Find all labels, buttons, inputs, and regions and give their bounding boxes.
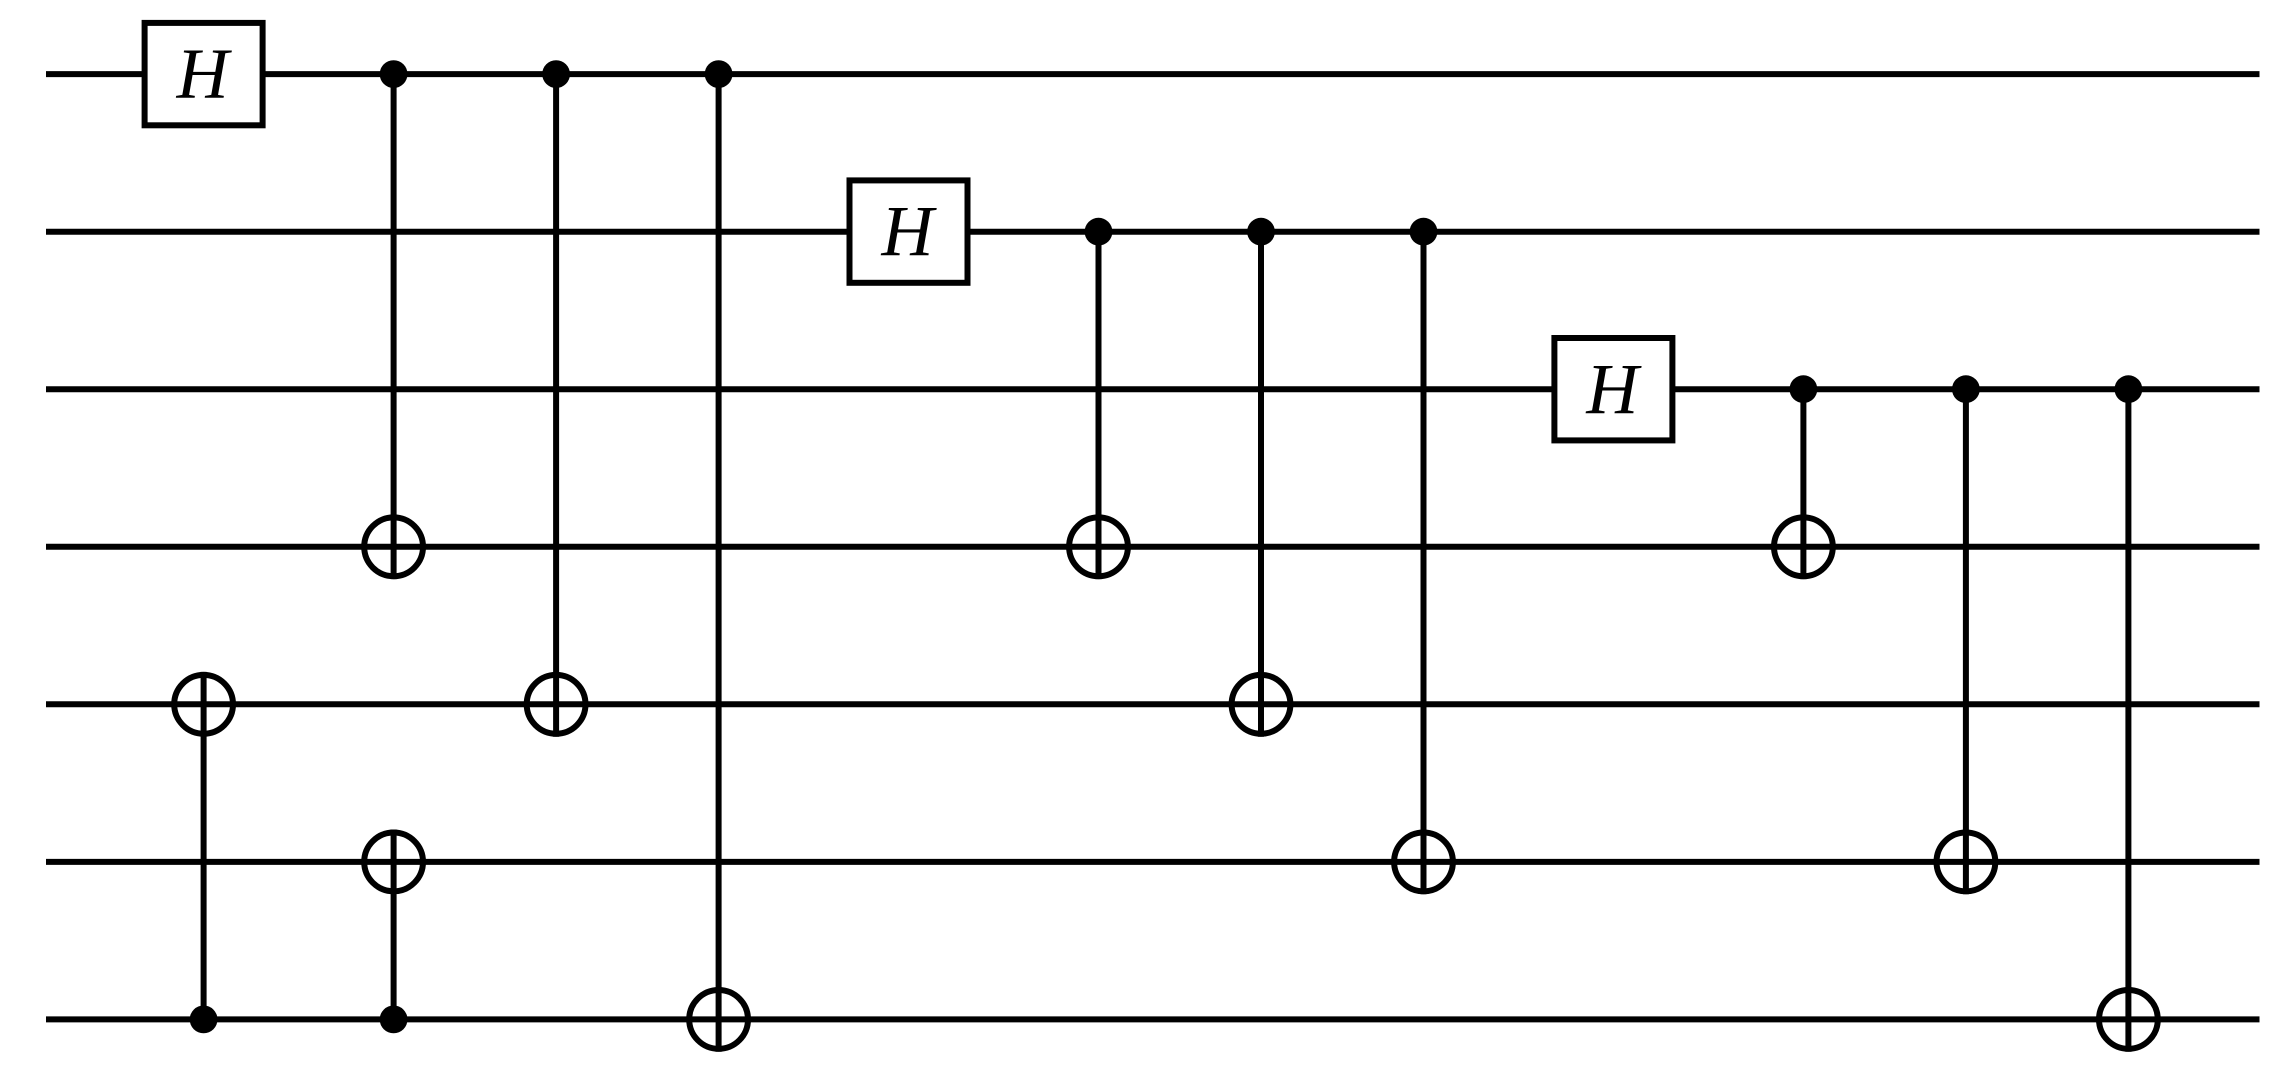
wire q6 xyxy=(46,1016,2260,1022)
CNOT q2-q5 col11 vertical wire xyxy=(1963,389,1969,894)
CNOT q2-q6 col12 target XOR xyxy=(2099,990,2158,1049)
svg-text:H: H xyxy=(881,191,938,271)
CNOT q2-q3 col10 target XOR xyxy=(1774,517,1833,576)
svg-text:H: H xyxy=(176,34,233,114)
wire q0 xyxy=(46,71,2260,77)
CNOT q2-q5 col11 control dot xyxy=(1952,375,1980,403)
CNOT q1-q3 col6 target XOR xyxy=(1069,517,1128,576)
CNOT q6-q5 col2 vertical wire xyxy=(391,830,397,1020)
wire q1 xyxy=(46,229,2260,235)
CNOT q0-q3 col2 control dot xyxy=(380,60,408,88)
Hadamard gate H3 box on q2 xyxy=(1554,338,1672,440)
CNOT q0-q3 col2 target XOR xyxy=(364,517,423,576)
svg-text:H: H xyxy=(1585,349,1642,429)
CNOT q2-q5 col11 target XOR xyxy=(1937,833,1996,892)
CNOT q0-q4 col3 vertical wire xyxy=(553,74,559,737)
CNOT q6-q4 col1 control dot xyxy=(190,1006,218,1034)
CNOT q6-q5 col2 target XOR xyxy=(364,833,423,892)
CNOT q1-q4 col7 control dot xyxy=(1247,218,1275,246)
CNOT q1-q4 col7 target XOR xyxy=(1232,675,1291,734)
Hadamard gate H2 box on q1 xyxy=(850,180,968,282)
CNOT q1-q3 col6 vertical wire xyxy=(1096,232,1102,579)
CNOT q0-q6 col4 target XOR xyxy=(689,990,748,1049)
CNOT q1-q5 col8 target XOR xyxy=(1394,833,1453,892)
CNOT q1-q5 col8 control dot xyxy=(1410,218,1438,246)
wire q4 xyxy=(46,701,2260,707)
CNOT q2-q6 col12 control dot xyxy=(2115,375,2143,403)
CNOT q2-q3 col10 control dot xyxy=(1790,375,1818,403)
CNOT q0-q3 col2 vertical wire xyxy=(391,74,397,579)
CNOT q2-q3 col10 vertical wire xyxy=(1800,389,1806,579)
CNOT q6-q4 col1 target XOR xyxy=(174,675,233,734)
CNOT q0-q6 col4 vertical wire xyxy=(716,74,722,1052)
CNOT q2-q6 col12 vertical wire xyxy=(2125,389,2131,1052)
CNOT q0-q4 col3 control dot xyxy=(542,60,570,88)
CNOT q0-q4 col3 target XOR xyxy=(527,675,586,734)
CNOT q6-q5 col2 control dot xyxy=(380,1006,408,1034)
CNOT q6-q4 col1 vertical wire xyxy=(201,672,207,1020)
wire q5 xyxy=(46,859,2260,865)
CNOT q0-q6 col4 control dot xyxy=(705,60,733,88)
CNOT q1-q5 col8 vertical wire xyxy=(1421,232,1427,895)
CNOT q1-q4 col7 vertical wire xyxy=(1258,232,1264,737)
Hadamard gate H1 box on q0 xyxy=(145,23,263,125)
CNOT q1-q3 col6 control dot xyxy=(1085,218,1113,246)
wire q3 xyxy=(46,544,2260,550)
wire q2 xyxy=(46,386,2260,392)
